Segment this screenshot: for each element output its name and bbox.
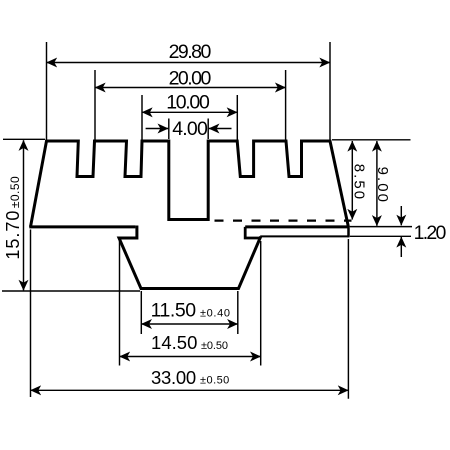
svg-text:±0.40: ±0.40 bbox=[200, 308, 230, 320]
extension line 11.50 right bbox=[237, 291, 239, 334]
lip bottom edge bbox=[260, 235, 349, 237]
dimension line 29.80 bbox=[47, 62, 331, 64]
svg-text:14.50: 14.50 bbox=[151, 332, 197, 353]
svg-text:33.00: 33.00 bbox=[151, 367, 196, 388]
extension line bottom left (boss bottom, for 15.70) bbox=[2, 290, 140, 292]
dimension line 11.50 bbox=[141, 323, 238, 325]
svg-text:11.50: 11.50 bbox=[151, 299, 197, 321]
dimension line 14.50 bbox=[120, 356, 261, 358]
left barb and lower trapezoid boss bbox=[119, 226, 261, 289]
extension line 29.80 left bbox=[46, 42, 48, 140]
dimension arrow 4.00 left bbox=[146, 128, 169, 130]
svg-text:8.50: 8.50 bbox=[351, 164, 368, 199]
dimension line 15.70 bbox=[23, 140, 25, 290]
dimension line 20.00 bbox=[95, 87, 286, 89]
extension line 10.00 left bbox=[141, 95, 143, 140]
extension line 33.00 left bbox=[30, 230, 32, 398]
dimension arrow 1.20 bottom bbox=[400, 237, 402, 257]
extension line 10.00 right bbox=[236, 95, 238, 140]
svg-text:9.00: 9.00 bbox=[374, 167, 391, 202]
right barb notch under lip bbox=[245, 227, 260, 238]
extension line top left (profile top edge, for 15.70) bbox=[3, 138, 45, 140]
extension line 14.50 right bbox=[260, 241, 262, 366]
extension line 29.80 right bbox=[329, 42, 331, 140]
dimension arrow 1.20 top bbox=[400, 206, 402, 225]
hidden dashed line at groove depth bbox=[215, 219, 352, 221]
extension line 4.00 right bbox=[207, 119, 209, 140]
extension line 11.50 left bbox=[140, 291, 142, 334]
extension line lip bottom (for 1.20) bbox=[350, 235, 411, 237]
svg-text:1.20: 1.20 bbox=[414, 222, 447, 244]
profile outline: left slant, top comb with slots, right slant bbox=[31, 141, 349, 227]
svg-text:20.00: 20.00 bbox=[169, 67, 212, 89]
dimension line 10.00 bbox=[142, 111, 237, 113]
svg-text:29.80: 29.80 bbox=[169, 41, 212, 63]
dimension arrow 4.00 right bbox=[209, 128, 232, 130]
dimension line 9.00 bbox=[376, 141, 378, 226]
profile bottom edge left of neck bbox=[29, 225, 135, 228]
svg-text:±0.50: ±0.50 bbox=[201, 340, 228, 352]
dimension line 8.50 bbox=[351, 141, 353, 220]
svg-text:4.00: 4.00 bbox=[172, 118, 208, 140]
extension line 20.00 left bbox=[94, 70, 96, 140]
extension line 20.00 right bbox=[285, 70, 287, 140]
lip top edge bbox=[245, 225, 349, 228]
lip right end edge bbox=[347, 226, 350, 237]
extension line lip top (for 9.00 and 1.20) bbox=[350, 226, 412, 228]
extension line top right (profile top edge, for 8.50 and 9.00) bbox=[332, 139, 411, 141]
dimension line 33.00 bbox=[31, 389, 349, 391]
extension line 33.00 right bbox=[347, 239, 349, 399]
svg-text:10.00: 10.00 bbox=[166, 92, 210, 114]
extension line 14.50 left bbox=[119, 241, 121, 366]
svg-text:±0.50: ±0.50 bbox=[200, 374, 229, 386]
extension line 4.00 left bbox=[168, 119, 170, 140]
